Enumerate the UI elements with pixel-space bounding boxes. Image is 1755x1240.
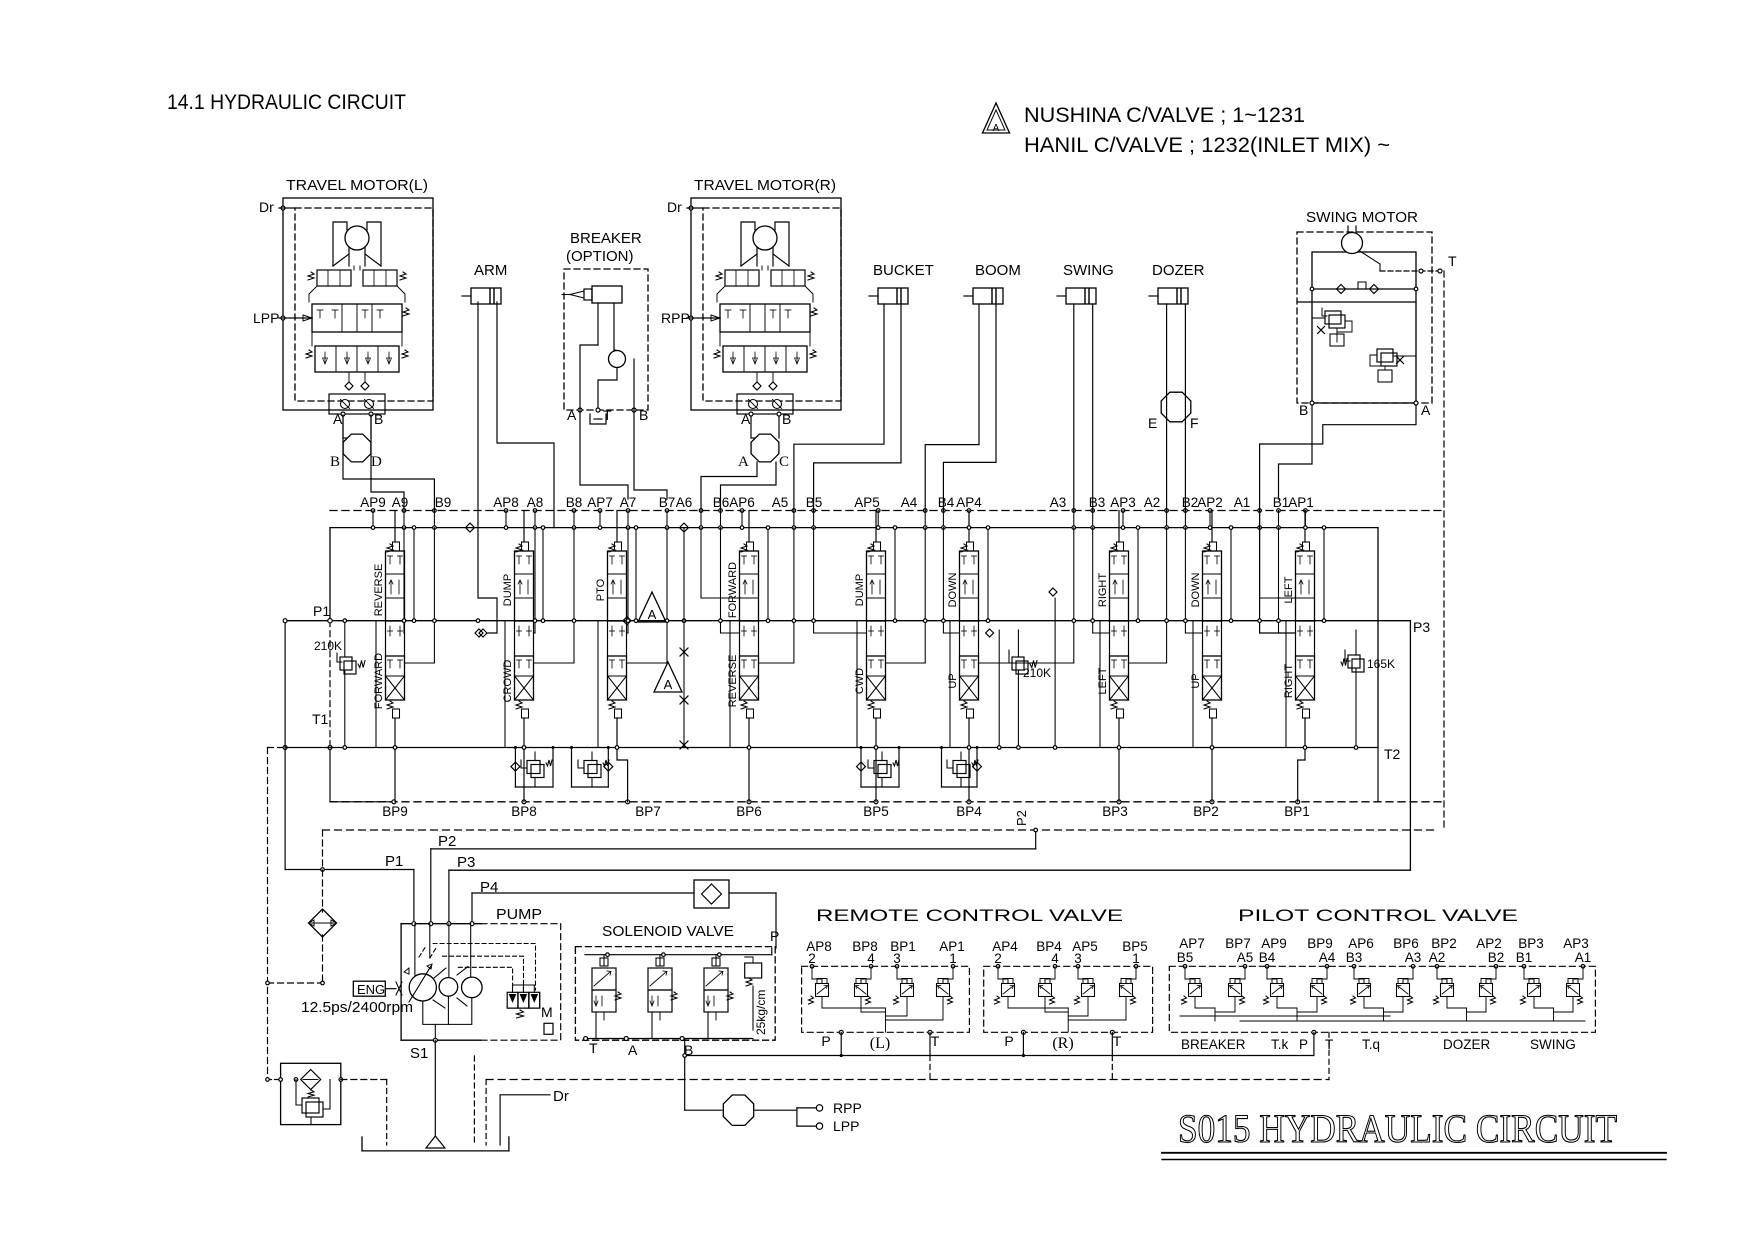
swing motor block xyxy=(1297,209,1432,403)
svg-text:LEFT: LEFT xyxy=(1283,576,1295,603)
svg-text:AP6: AP6 xyxy=(729,495,755,510)
svg-text:B2: B2 xyxy=(1488,950,1505,965)
remote control valve port labels R xyxy=(992,939,1148,966)
valve spool DOWN x=1212 xyxy=(1203,511,1222,802)
svg-text:A4: A4 xyxy=(1319,950,1336,965)
remote R bottom labels xyxy=(1004,1030,1121,1079)
svg-text:210K: 210K xyxy=(1023,666,1051,680)
travel motor L ports A B xyxy=(341,412,345,416)
svg-text:PILOT CONTROL VALVE: PILOT CONTROL VALVE xyxy=(1238,906,1518,925)
svg-text:LPP: LPP xyxy=(833,1118,859,1134)
valve spool REVERSE x=395 xyxy=(386,511,405,802)
svg-text:REVERSE: REVERSE xyxy=(727,655,739,708)
wire ARM right xyxy=(497,302,554,528)
svg-text:AP9: AP9 xyxy=(360,495,386,510)
remote/pilot section remote R dashed box xyxy=(984,966,1153,1032)
svg-text:RIGHT: RIGHT xyxy=(1097,573,1109,608)
dashed connector left filter xyxy=(266,1078,281,1082)
svg-text:UP: UP xyxy=(1190,673,1202,688)
travel motor R check block xyxy=(737,394,793,414)
travel motor R counterbalance valves xyxy=(725,270,759,286)
svg-text:T: T xyxy=(1448,253,1457,269)
svg-text:A6: A6 xyxy=(676,495,693,510)
svg-text:A9: A9 xyxy=(392,495,409,510)
pilot P and T drops xyxy=(1312,1030,1329,1079)
valve A/B port deep drops xyxy=(402,528,1295,663)
travel motor L dashed enclosure xyxy=(295,208,433,401)
return filter box xyxy=(279,1063,343,1124)
pilot bottom labels xyxy=(1181,1037,1576,1052)
svg-text:BP6: BP6 xyxy=(736,804,762,819)
svg-text:BP9: BP9 xyxy=(382,804,408,819)
svg-text:BP8: BP8 xyxy=(511,804,537,819)
travel motor L lower valve row xyxy=(315,346,399,372)
RPP LPP ports xyxy=(797,1100,862,1134)
svg-text:A: A xyxy=(664,677,673,692)
svg-text:P3: P3 xyxy=(1413,619,1430,635)
svg-text:BP1: BP1 xyxy=(1284,804,1310,819)
travel motor R lower valve row xyxy=(723,346,807,372)
pilot control valve dashed box xyxy=(1169,966,1595,1032)
svg-text:SOLENOID VALVE: SOLENOID VALVE xyxy=(602,923,734,940)
pump check valve trio xyxy=(507,985,540,1018)
travel motor R motor symbol xyxy=(741,222,755,266)
svg-text:AP7: AP7 xyxy=(1179,936,1205,951)
breaker circle junction xyxy=(609,351,626,368)
warning triangle A xyxy=(983,103,1010,134)
valve second bus xyxy=(330,527,1378,529)
svg-text:Dr: Dr xyxy=(667,199,682,215)
valve top dashed bus xyxy=(330,510,1444,512)
BP dashed bus xyxy=(330,801,1444,803)
svg-text:AP9: AP9 xyxy=(1261,936,1287,951)
P1 bus hop circles xyxy=(476,619,686,623)
svg-text:BUCKET: BUCKET xyxy=(873,262,934,279)
travel motor L main spool xyxy=(312,304,402,332)
breaker option block xyxy=(564,230,648,410)
swing motor symbol xyxy=(1342,226,1381,271)
svg-text:B2: B2 xyxy=(1182,495,1199,510)
svg-text:ARM: ARM xyxy=(474,262,507,279)
warning triangle A in valve 1 xyxy=(638,592,666,622)
svg-text:AP5: AP5 xyxy=(854,495,880,510)
svg-text:AP3: AP3 xyxy=(1563,936,1589,951)
svg-text:AP1: AP1 xyxy=(1288,495,1314,510)
travel motor R brake shuttle xyxy=(717,286,725,302)
B port to remote pressure line xyxy=(683,1039,1314,1111)
svg-text:A5: A5 xyxy=(1237,950,1254,965)
svg-text:FORWARD: FORWARD xyxy=(373,653,385,709)
cylinder ARM xyxy=(462,262,507,304)
valve vertical port drops xyxy=(371,511,1307,530)
wire swing motor A stair xyxy=(1258,405,1416,633)
svg-text:165K: 165K xyxy=(1367,657,1395,671)
svg-text:TRAVEL MOTOR(R): TRAVEL MOTOR(R) xyxy=(694,177,836,194)
svg-text:FORWARD: FORWARD xyxy=(727,562,739,618)
svg-text:BP4: BP4 xyxy=(956,804,982,819)
svg-text:A: A xyxy=(738,454,749,470)
solenoid valve at 660 xyxy=(648,955,677,1020)
svg-text:T.q: T.q xyxy=(1362,1037,1380,1052)
svg-text:LEFT: LEFT xyxy=(1097,667,1109,694)
travel motor R shuttle valves xyxy=(756,372,758,382)
svg-text:P: P xyxy=(1004,1033,1013,1049)
svg-text:DUMP: DUMP xyxy=(502,574,514,606)
remote/pilot section remote L dashed box xyxy=(802,966,970,1032)
travel motor R dashed enclosure xyxy=(703,208,841,401)
wire dozer to B2 xyxy=(1184,304,1186,511)
pump port feed lines xyxy=(415,924,471,978)
P3 riser xyxy=(1378,621,1410,871)
svg-text:B4: B4 xyxy=(1259,950,1276,965)
wire dozer cyl through motor to A2 xyxy=(1166,304,1168,511)
extra verticals in valve mid zone xyxy=(997,598,1056,749)
svg-text:SWING: SWING xyxy=(1063,262,1114,279)
solenoid bottom ports xyxy=(584,1012,753,1058)
travel motor L outer box xyxy=(283,198,433,410)
svg-text:A3: A3 xyxy=(1050,495,1067,510)
valve spool DUMP x=524 xyxy=(515,511,534,802)
svg-text:CWD: CWD xyxy=(854,668,866,694)
svg-text:BP6: BP6 xyxy=(1393,936,1419,951)
section remote L port stubs xyxy=(810,965,955,973)
svg-text:12.5ps/2400rpm: 12.5ps/2400rpm xyxy=(301,999,413,1016)
P2 branch dashed with filter diamond xyxy=(322,830,324,983)
pump collector to suction xyxy=(423,996,472,1040)
svg-text:4: 4 xyxy=(1051,951,1059,966)
wire swing cyl left to A3 xyxy=(1073,304,1075,511)
svg-text:SWING: SWING xyxy=(1530,1037,1576,1052)
pilot control valve port labels xyxy=(1177,936,1592,965)
wire boom right to B4 xyxy=(943,304,996,511)
cylinder SWING xyxy=(1057,262,1114,304)
svg-text:A4: A4 xyxy=(901,495,918,510)
svg-text:BP5: BP5 xyxy=(863,804,889,819)
solenoid valve block xyxy=(575,923,775,1040)
svg-text:P: P xyxy=(1299,1037,1308,1052)
main title S015 HYDRAULIC CIRCUIT xyxy=(1162,1106,1666,1160)
dozer motor octagon xyxy=(1148,392,1199,431)
svg-text:B: B xyxy=(639,407,648,423)
relief valve 165K right xyxy=(1341,630,1395,749)
svg-text:DUMP: DUMP xyxy=(854,574,866,606)
svg-text:P2: P2 xyxy=(1014,810,1029,826)
svg-text:A8: A8 xyxy=(527,495,544,510)
travel motor L brake shuttle xyxy=(309,286,317,302)
left dashed return line xyxy=(266,748,325,1080)
pump block box xyxy=(401,906,561,1040)
svg-text:A: A xyxy=(648,607,657,622)
section remote R port stubs xyxy=(996,965,1138,973)
svg-text:RIGHT: RIGHT xyxy=(1283,664,1295,699)
suction filter diamond xyxy=(309,909,337,937)
valve left edge xyxy=(329,528,331,802)
travel motor L crossover motor xyxy=(343,434,371,462)
BP9 solid segment xyxy=(330,801,394,803)
wire TM-L D to A9 xyxy=(371,415,404,511)
long dashed low pressure line xyxy=(486,1079,1329,1081)
svg-text:BP2: BP2 xyxy=(1193,804,1219,819)
pilot internal cross lines xyxy=(1180,1016,1585,1021)
P2 label riser xyxy=(1014,810,1037,849)
remote L bottom labels xyxy=(821,1030,939,1079)
svg-text:BP7: BP7 xyxy=(1225,936,1251,951)
swing motor relief valve 2 xyxy=(1370,302,1416,402)
svg-text:T: T xyxy=(589,1040,598,1056)
wire bucket right to B5 xyxy=(814,304,901,511)
travel motor L motor symbol xyxy=(333,222,347,266)
svg-text:P: P xyxy=(770,928,779,944)
valve spool RIGHT x=1119 xyxy=(1110,511,1129,802)
svg-text:F: F xyxy=(1190,415,1199,431)
svg-text:A: A xyxy=(628,1042,638,1058)
pump swash arrow xyxy=(404,964,432,1002)
svg-text:BP7: BP7 xyxy=(635,804,661,819)
pilot section 5 valves xyxy=(1521,965,1585,1022)
svg-text:T1: T1 xyxy=(312,711,329,727)
pilot section 3 valves xyxy=(1351,965,1415,1022)
svg-text:S1: S1 xyxy=(410,1045,428,1062)
cylinder DOZER xyxy=(1149,262,1205,304)
P1 bus xyxy=(285,603,1378,623)
svg-text:T2: T2 xyxy=(1384,746,1401,762)
svg-text:A5: A5 xyxy=(772,495,789,510)
valve spool PTO x=617 xyxy=(608,511,628,802)
BP line relief valves xyxy=(511,746,982,787)
P4 filter square xyxy=(694,880,729,908)
tank entry dashes xyxy=(387,1056,486,1145)
svg-text:BREAKER: BREAKER xyxy=(570,230,642,247)
travel motor L shuttle valves xyxy=(348,372,350,382)
svg-text:2: 2 xyxy=(994,951,1002,966)
svg-text:BP9: BP9 xyxy=(1307,936,1333,951)
svg-text:A: A xyxy=(333,411,343,427)
svg-text:A1: A1 xyxy=(1234,495,1251,510)
section remote L internal collector xyxy=(822,997,943,1032)
svg-text:BP3: BP3 xyxy=(1102,804,1128,819)
P3 supply line xyxy=(449,870,1411,924)
BP port labels xyxy=(382,800,1310,819)
pump M gauge xyxy=(541,1004,553,1034)
wire ARM check diamond xyxy=(479,629,487,637)
valve spool DOWN x=969 xyxy=(960,511,979,802)
swing motor relief valve 1 xyxy=(1312,302,1352,402)
svg-text:Dr: Dr xyxy=(259,199,274,215)
svg-text:B: B xyxy=(1299,402,1308,418)
svg-text:4: 4 xyxy=(867,951,875,966)
travel motor R outer box xyxy=(691,198,841,410)
breaker tool symbol xyxy=(562,286,622,303)
pilot section 1 valves xyxy=(1182,965,1247,1022)
svg-text:ENG: ENG xyxy=(357,982,385,997)
relief valve 210K left xyxy=(314,619,365,749)
svg-text:AP2: AP2 xyxy=(1197,495,1223,510)
svg-text:P1: P1 xyxy=(313,603,330,619)
svg-text:A: A xyxy=(993,123,1000,134)
svg-text:A: A xyxy=(741,411,751,427)
valve top junction circles xyxy=(371,509,1307,513)
warning triangle A in valve 2 xyxy=(654,662,682,692)
svg-text:T.k: T.k xyxy=(1271,1037,1289,1052)
valve top port labels xyxy=(360,495,1314,510)
svg-text:DOWN: DOWN xyxy=(947,573,959,608)
T1 bus xyxy=(268,711,1379,750)
svg-text:UP: UP xyxy=(947,673,959,688)
swing motor check valve row xyxy=(1298,282,1418,302)
svg-text:14.1 HYDRAULIC CIRCUIT: 14.1 HYDRAULIC CIRCUIT xyxy=(167,91,406,114)
svg-text:C: C xyxy=(779,454,789,470)
wire TM-L B to B9 xyxy=(343,415,434,511)
pilot source polygon pump xyxy=(685,1095,797,1125)
section remote L reducing valves xyxy=(809,972,954,1004)
svg-text:T: T xyxy=(1113,1033,1122,1049)
svg-text:B5: B5 xyxy=(1177,950,1194,965)
section remote R internal collector xyxy=(1008,997,1126,1032)
svg-text:P: P xyxy=(821,1033,830,1049)
pump internal dashed runs xyxy=(419,944,536,991)
valve spool FORWARD x=749 xyxy=(740,511,759,802)
wire breaker B to B7 xyxy=(634,409,667,499)
svg-text:SWING MOTOR: SWING MOTOR xyxy=(1306,209,1418,226)
svg-text:PUMP: PUMP xyxy=(496,906,542,923)
svg-text:B3: B3 xyxy=(1089,495,1106,510)
wire swing motor T dashed drop xyxy=(1443,271,1445,830)
swing motor T port xyxy=(1380,253,1457,273)
pilot section 2 valves xyxy=(1264,965,1329,1022)
breaker ports A T B xyxy=(567,407,648,424)
relief valve 210K middle xyxy=(1009,630,1051,749)
travel motor R crossover motor xyxy=(751,434,779,462)
svg-text:B3: B3 xyxy=(1346,950,1363,965)
svg-text:B: B xyxy=(374,411,383,427)
svg-text:AP3: AP3 xyxy=(1110,495,1136,510)
svg-text:AP7: AP7 xyxy=(587,495,613,510)
T2 drop xyxy=(1377,748,1379,802)
wire swing motor B to B1 xyxy=(1279,405,1313,499)
svg-text:TRAVEL MOTOR(L): TRAVEL MOTOR(L) xyxy=(286,177,428,194)
svg-text:Dr: Dr xyxy=(553,1088,569,1105)
svg-text:DOWN: DOWN xyxy=(1190,573,1202,608)
svg-text:M: M xyxy=(541,1004,553,1020)
svg-text:(R): (R) xyxy=(1052,1035,1073,1052)
travel motor R ports A B xyxy=(749,412,753,416)
svg-text:B1: B1 xyxy=(1516,950,1533,965)
svg-text:DOZER: DOZER xyxy=(1152,262,1205,279)
x marks on plug line xyxy=(680,528,688,749)
solenoid relief xyxy=(745,957,762,1030)
wire boom left to A4 xyxy=(925,304,979,511)
dashed return to tank xyxy=(341,1079,387,1081)
wire TM-R C to B6 xyxy=(721,462,777,511)
svg-text:210K: 210K xyxy=(314,639,342,653)
valve spool DUMP x=876 xyxy=(867,511,886,802)
svg-text:AP6: AP6 xyxy=(1348,936,1374,951)
engine box ENG xyxy=(353,981,402,997)
svg-text:PTO: PTO xyxy=(595,578,607,601)
P1 supply line xyxy=(283,619,414,924)
svg-text:RPP: RPP xyxy=(833,1100,862,1116)
svg-text:3: 3 xyxy=(1074,951,1082,966)
svg-text:P2: P2 xyxy=(438,833,456,850)
svg-text:P3: P3 xyxy=(457,854,475,871)
svg-text:E: E xyxy=(1148,415,1157,431)
svg-text:BP3: BP3 xyxy=(1518,936,1544,951)
svg-text:AP2: AP2 xyxy=(1476,936,1502,951)
solenoid valve at 716 xyxy=(704,955,733,1020)
svg-text:RPP: RPP xyxy=(661,310,690,326)
wire TM-R A to A6 xyxy=(701,462,757,511)
P2 dashed line xyxy=(323,830,1439,850)
svg-text:A1: A1 xyxy=(1575,950,1592,965)
svg-text:DOZER: DOZER xyxy=(1443,1037,1491,1052)
travel motor R main spool xyxy=(720,304,810,332)
svg-text:T: T xyxy=(603,407,612,423)
svg-text:B8: B8 xyxy=(566,495,583,510)
P4 supply line xyxy=(472,893,776,948)
travel motor L check block xyxy=(329,394,385,414)
svg-text:REMOTE CONTROL VALVE: REMOTE CONTROL VALVE xyxy=(816,906,1123,925)
svg-text:T: T xyxy=(931,1033,940,1049)
svg-text:AP4: AP4 xyxy=(956,495,982,510)
svg-text:CROWD: CROWD xyxy=(502,660,514,703)
P2 riser from pump xyxy=(430,849,432,924)
svg-text:D: D xyxy=(371,454,382,470)
svg-text:B1: B1 xyxy=(1273,495,1290,510)
svg-text:S015 HYDRAULIC CIRCUIT: S015 HYDRAULIC CIRCUIT xyxy=(1178,1106,1617,1151)
pilot section 4 valves xyxy=(1434,965,1498,1022)
wire bucket left to A5 xyxy=(794,304,884,511)
svg-text:REVERSE: REVERSE xyxy=(373,564,385,617)
cylinder BOOM xyxy=(964,262,1021,304)
svg-text:B4: B4 xyxy=(938,495,955,510)
valve spool LEFT x=1305 xyxy=(1296,511,1315,802)
svg-text:A2: A2 xyxy=(1429,950,1446,965)
svg-text:3: 3 xyxy=(893,951,901,966)
P2 supply line xyxy=(431,848,1036,850)
junction diamonds on buses xyxy=(466,523,1058,637)
svg-text:A: A xyxy=(1421,402,1431,418)
svg-text:(L): (L) xyxy=(870,1035,890,1052)
svg-text:BP2: BP2 xyxy=(1431,936,1457,951)
wire breaker A to A7 xyxy=(580,409,628,499)
drain Dr line xyxy=(500,1088,569,1145)
cylinder BUCKET xyxy=(869,262,934,304)
svg-text:A: A xyxy=(567,407,577,423)
svg-text:1: 1 xyxy=(949,951,957,966)
svg-text:2: 2 xyxy=(808,951,816,966)
svg-text:NUSHINA C/VALVE ; 1~1231: NUSHINA C/VALVE ; 1~1231 xyxy=(1024,104,1305,127)
svg-text:B9: B9 xyxy=(435,495,452,510)
svg-text:HANIL C/VALVE ; 1232(INLET: HANIL C/VALVE ; 1232(INLET MIX) ~ xyxy=(1024,134,1390,157)
svg-text:1: 1 xyxy=(1132,951,1140,966)
pump circles xyxy=(409,974,482,1001)
svg-text:(OPTION): (OPTION) xyxy=(566,248,634,265)
pump port junctions xyxy=(412,922,474,926)
valve section side drop lines xyxy=(376,526,1326,748)
svg-text:A2: A2 xyxy=(1144,495,1161,510)
swing motor ports B A xyxy=(1299,401,1431,418)
solenoid valve internal feed xyxy=(585,928,779,957)
svg-text:BREAKER: BREAKER xyxy=(1181,1037,1246,1052)
svg-text:B: B xyxy=(782,411,791,427)
valve right edge xyxy=(1377,528,1379,748)
travel motor L counterbalance valves xyxy=(317,270,351,286)
svg-text:BOOM: BOOM xyxy=(975,262,1021,279)
svg-text:LPP: LPP xyxy=(253,310,279,326)
section remote R reducing valves xyxy=(995,972,1137,1004)
svg-text:A3: A3 xyxy=(1405,950,1422,965)
remote control valve port labels L xyxy=(806,939,965,966)
